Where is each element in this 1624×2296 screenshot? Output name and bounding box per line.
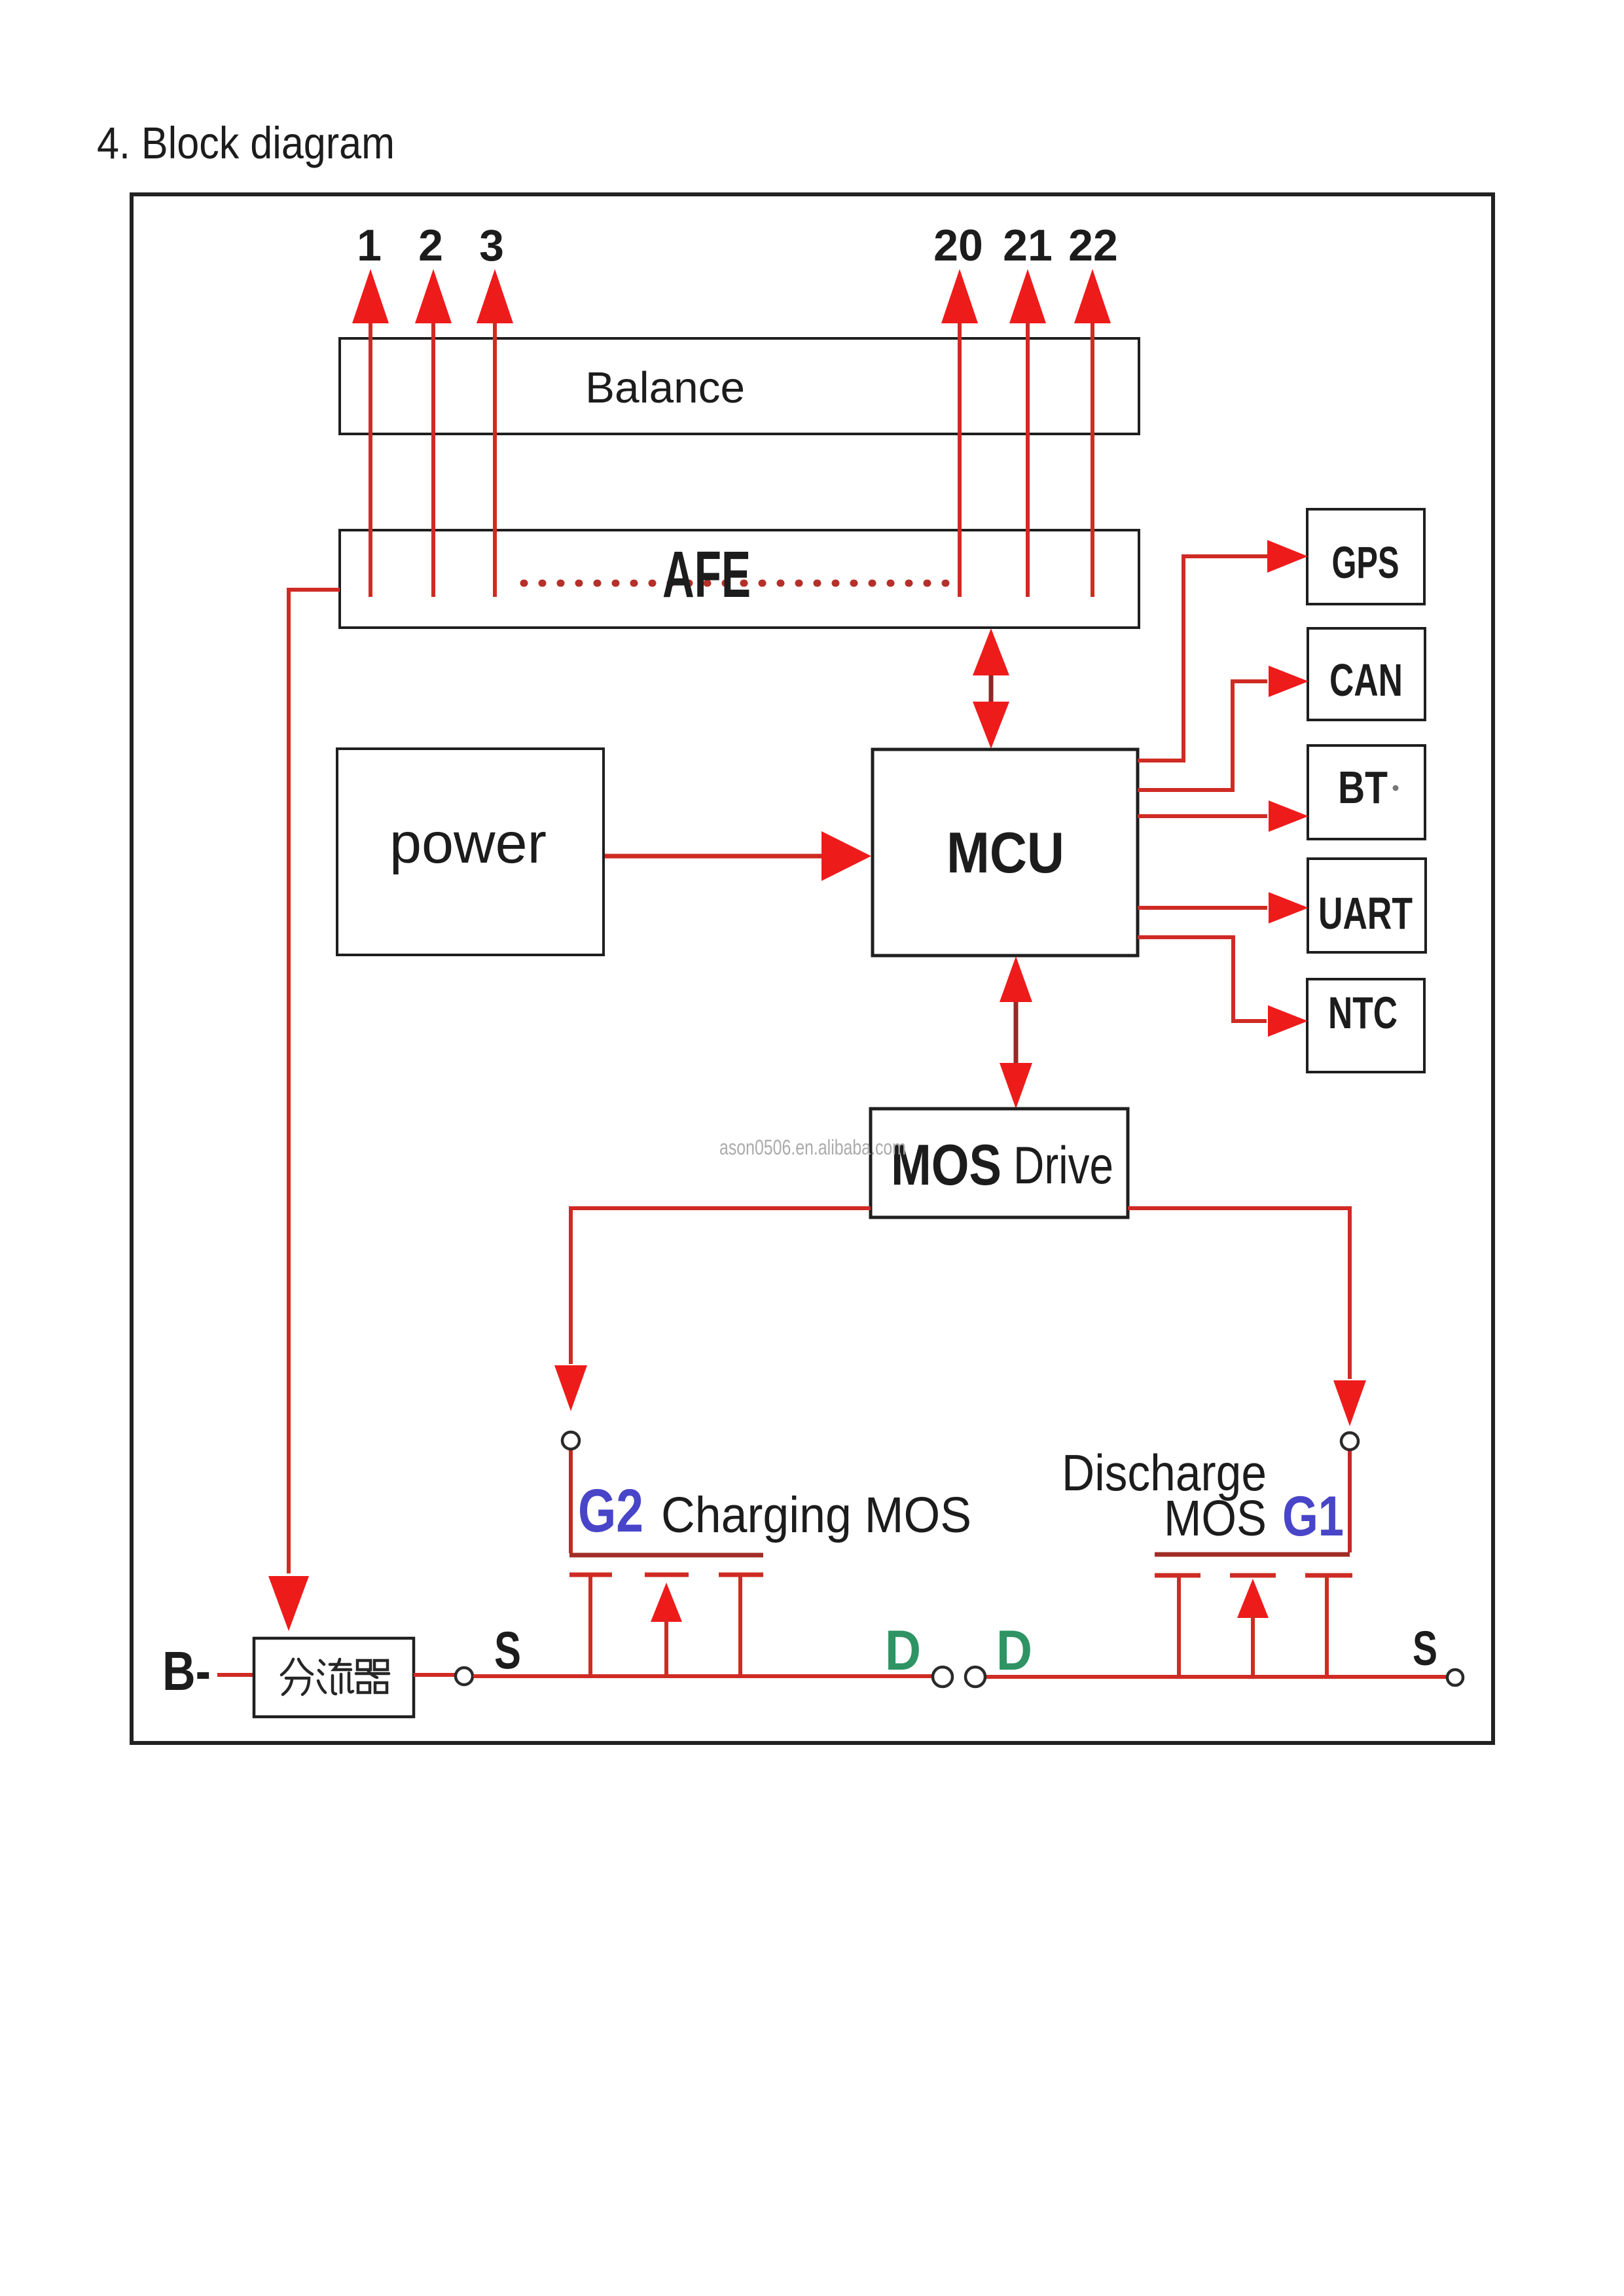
wire AFE to shunt (B- rail): [289, 590, 340, 1573]
svg-text:4. Block diagram: 4. Block diagram: [97, 118, 395, 168]
wire cell 2: [431, 321, 435, 597]
svg-text:NTC: NTC: [1328, 988, 1398, 1038]
svg-text:21: 21: [1003, 221, 1053, 270]
wire MCU to GPS: [1138, 556, 1270, 761]
svg-text:D: D: [885, 1619, 921, 1682]
node G2 gate terminal: [562, 1432, 579, 1449]
block GPS: [1307, 509, 1424, 604]
transistor G2 drain stub: [738, 1577, 742, 1674]
svg-text:2: 2: [418, 221, 443, 270]
svg-text:3: 3: [479, 221, 504, 270]
block UART: [1308, 859, 1426, 952]
block CAN: [1308, 628, 1425, 720]
block power: [337, 749, 604, 955]
wire MOS Drive to G2 gate: [571, 1208, 871, 1364]
block NTC: [1307, 979, 1424, 1072]
svg-text:S: S: [494, 1621, 521, 1680]
svg-text:Drive: Drive: [1013, 1136, 1113, 1195]
transistor G1 body arrow: [1237, 1579, 1269, 1618]
wire MCU to NTC: [1138, 937, 1267, 1021]
wire cell 3: [493, 321, 497, 597]
node D left: [933, 1667, 952, 1687]
transistor G2 source stub: [588, 1577, 592, 1674]
transistor G2 (charging MOS) gate bar: [569, 1553, 763, 1558]
block shunt 分流器: [254, 1638, 414, 1717]
wire cell 21: [1026, 321, 1030, 597]
node G1 gate terminal: [1341, 1433, 1358, 1450]
transistor G1 drain stub: [1177, 1577, 1181, 1675]
transistor G1 source stub: [1325, 1577, 1329, 1675]
svg-text:B-: B-: [162, 1640, 211, 1702]
wire cell 22: [1091, 321, 1094, 597]
glyph 流: [318, 1659, 353, 1694]
wire MCU to UART: [1138, 906, 1267, 910]
wire MCU to CAN: [1138, 681, 1267, 790]
transistor G1 (discharge MOS) gate bar: [1155, 1552, 1350, 1557]
svg-text:MOS: MOS: [891, 1132, 1001, 1197]
block MCU: [873, 749, 1138, 956]
block Balance: [340, 338, 1139, 434]
wire G2 gate: [569, 1450, 573, 1553]
glyph 器: [356, 1660, 389, 1693]
glyph 分: [281, 1659, 312, 1695]
svg-text:CAN: CAN: [1329, 655, 1403, 706]
wire MCU to MOS Drive (bidirectional): [1014, 992, 1019, 1073]
svg-text:20: 20: [933, 221, 983, 270]
wire shunt to S node: [414, 1673, 456, 1677]
svg-text:AFE: AFE: [662, 538, 751, 611]
dotted net inside AFE: [524, 580, 947, 587]
svg-text:22: 22: [1068, 221, 1118, 270]
transistor G1 channel bars: [1155, 1573, 1200, 1578]
wire S to D (under G2): [473, 1674, 931, 1678]
svg-text:ason0506.en.alibaba.com: ason0506.en.alibaba.com: [719, 1136, 906, 1159]
block BT: [1308, 745, 1425, 839]
wire power to MCU: [605, 854, 826, 859]
svg-text:MCU: MCU: [947, 820, 1064, 885]
wire cell 1: [369, 321, 372, 597]
svg-text:G1: G1: [1282, 1485, 1344, 1548]
svg-text:Balance: Balance: [585, 363, 745, 412]
wire G1 gate: [1348, 1451, 1352, 1552]
wire AFE to MCU (bidirectional): [989, 668, 994, 710]
svg-text:UART: UART: [1318, 888, 1413, 939]
svg-text:BT: BT: [1338, 762, 1388, 813]
transistor G2 body arrow: [651, 1583, 682, 1622]
node S right: [1447, 1670, 1463, 1685]
svg-text:1: 1: [357, 221, 382, 270]
svg-text:MOS: MOS: [1164, 1490, 1267, 1547]
node S left: [456, 1668, 473, 1685]
wire MOS Drive to G1 gate: [1128, 1208, 1350, 1379]
wire cell 20: [958, 321, 962, 597]
svg-text:GPS: GPS: [1332, 537, 1399, 588]
svg-text:D: D: [996, 1619, 1032, 1682]
svg-text:S: S: [1413, 1621, 1437, 1676]
block MOS Drive: [871, 1109, 1128, 1217]
wire D to S (under G1): [986, 1675, 1447, 1679]
wire B- to shunt: [217, 1673, 254, 1677]
svg-text:G2: G2: [578, 1477, 643, 1545]
wire MCU to BT: [1138, 814, 1267, 818]
svg-text:power: power: [389, 812, 547, 875]
block AFE: [340, 530, 1139, 628]
svg-text:Charging MOS: Charging MOS: [661, 1487, 971, 1543]
transistor G2 channel bars: [569, 1573, 612, 1577]
node D right: [965, 1667, 985, 1687]
